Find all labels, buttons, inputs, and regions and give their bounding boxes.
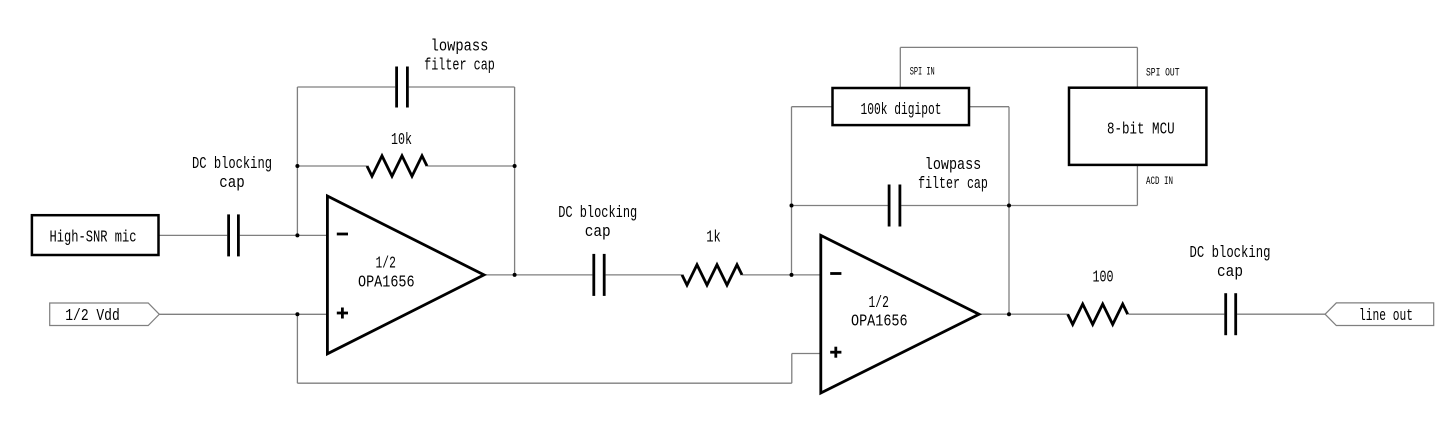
svg-text:cap: cap — [1217, 262, 1243, 281]
capacitor C1 DC blocking input — [229, 214, 239, 256]
wire feedback1 right vertical — [514, 87, 516, 275]
svg-text:OPA1656: OPA1656 — [358, 272, 415, 291]
svg-text:DC blocking: DC blocking — [192, 154, 272, 173]
svg-text:cap: cap — [219, 173, 245, 192]
junction U2 output node — [1007, 312, 1011, 316]
label DC blocking cap (input) — [192, 154, 272, 192]
minus sign U2 — [830, 272, 841, 275]
label lowpass filter cap (U2) — [918, 155, 988, 193]
resistor R1 10k (U1 feedback) — [367, 156, 427, 176]
resistor R2 1k — [682, 265, 742, 285]
svg-text:OPA1656: OPA1656 — [851, 312, 908, 331]
wire U2 output — [979, 313, 1068, 315]
svg-text:filter cap: filter cap — [424, 55, 495, 74]
wire riser to U2 plus level — [791, 354, 793, 384]
wire feedback1 resistor left — [297, 165, 367, 167]
wire into U2 non-inverting input — [792, 353, 821, 355]
capacitor C3 DC blocking interstage — [594, 254, 604, 296]
wire ACD IN run — [1009, 205, 1137, 207]
wire MCU bottom pin — [1136, 165, 1138, 206]
svg-text:1/2 Vdd: 1/2 Vdd — [65, 306, 120, 325]
wire mic output to C1 — [159, 234, 228, 236]
op-amp U1 1/2 OPA1656 — [327, 196, 484, 354]
resistor R3 100 — [1068, 304, 1128, 324]
block High-SNR mic — [32, 215, 159, 255]
svg-text:line out: line out — [1359, 306, 1413, 325]
wire C5 to line out tag — [1237, 313, 1325, 315]
svg-text:8-bit MCU: 8-bit MCU — [1107, 120, 1175, 139]
svg-text:SPI OUT: SPI OUT — [1146, 67, 1180, 79]
capacitor C4 lowpass filter (U2 feedback) — [889, 185, 900, 227]
wire lowpass cap2 branch right — [901, 205, 1009, 207]
wire feedback1 resistor right — [427, 165, 515, 167]
wire feedback1 left vertical — [296, 87, 298, 235]
capacitor C2 lowpass filter (U1 feedback) — [397, 67, 408, 108]
wire lowpass cap2 branch left — [792, 205, 888, 207]
label 1/2 OPA1656 (U2) — [851, 293, 908, 331]
svg-text:lowpass: lowpass — [925, 155, 982, 174]
label 1/2 OPA1656 (U1) — [358, 254, 415, 292]
label DC blocking cap (output) — [1190, 243, 1271, 281]
svg-text:10k: 10k — [391, 130, 412, 149]
net tag line out — [1325, 303, 1434, 326]
wire feedback1 top left to cap — [297, 86, 395, 88]
junction feedback2 left tee — [790, 204, 794, 208]
capacitor C5 DC blocking output — [1226, 293, 1236, 335]
svg-text:lowpass: lowpass — [431, 36, 489, 55]
minus sign U1 — [337, 233, 348, 236]
svg-text:cap: cap — [585, 222, 611, 241]
wire feedback2 right vertical — [1008, 107, 1010, 315]
block 8-bit MCU — [1069, 88, 1206, 165]
label DC blocking cap (interstage) — [558, 203, 637, 241]
wire R2 to U2 inverting input — [742, 274, 821, 276]
wire Vdd tag to U1 non-inverting input — [159, 313, 327, 315]
wire feedback1 top cap to right — [409, 86, 515, 88]
wire C1 to U1 inverting input — [240, 234, 328, 236]
svg-text:100k digipot: 100k digipot — [861, 100, 942, 119]
svg-text:1/2: 1/2 — [376, 254, 396, 273]
svg-text:DC blocking: DC blocking — [1190, 243, 1271, 262]
svg-text:100: 100 — [1093, 268, 1114, 287]
block 100k digipot — [833, 88, 970, 125]
wire SPI link — [900, 46, 1137, 48]
svg-text:DC blocking: DC blocking — [558, 203, 637, 222]
plus sign U1 — [337, 308, 348, 319]
junction feedback2 right tee — [1007, 204, 1011, 208]
wire MCU top pin drop — [1136, 47, 1138, 87]
svg-text:ACD IN: ACD IN — [1146, 176, 1173, 188]
plus sign U2 — [830, 347, 841, 358]
wire digipot right pin — [969, 106, 1009, 108]
wire feedback2 left vertical — [791, 107, 793, 275]
net tag 1/2 Vdd — [50, 303, 160, 326]
wire U1 plus node down — [296, 314, 298, 383]
svg-text:1k: 1k — [706, 227, 721, 246]
svg-text:1/2: 1/2 — [869, 293, 889, 312]
junction U1 inverting input node — [295, 233, 299, 237]
wire C3 to R2 — [606, 274, 682, 276]
svg-text:SPI IN: SPI IN — [910, 67, 935, 79]
wire R3 to C5 — [1128, 313, 1224, 315]
wire digipot left pin — [792, 106, 833, 108]
junction feedback1 resistor right node — [513, 164, 517, 168]
junction U1 output node — [513, 273, 517, 277]
svg-text:High-SNR mic: High-SNR mic — [50, 228, 137, 247]
svg-text:filter cap: filter cap — [918, 174, 988, 193]
op-amp U2 1/2 OPA1656 — [821, 235, 979, 393]
wire bottom run — [297, 382, 791, 384]
wire U1 output — [484, 274, 592, 276]
wire digipot top pin riser — [899, 47, 901, 88]
junction feedback1 resistor left node — [295, 164, 299, 168]
junction U1 non-inverting input node — [295, 312, 299, 316]
junction U2 inverting input node — [790, 273, 794, 277]
label lowpass filter cap (U1) — [424, 36, 495, 74]
